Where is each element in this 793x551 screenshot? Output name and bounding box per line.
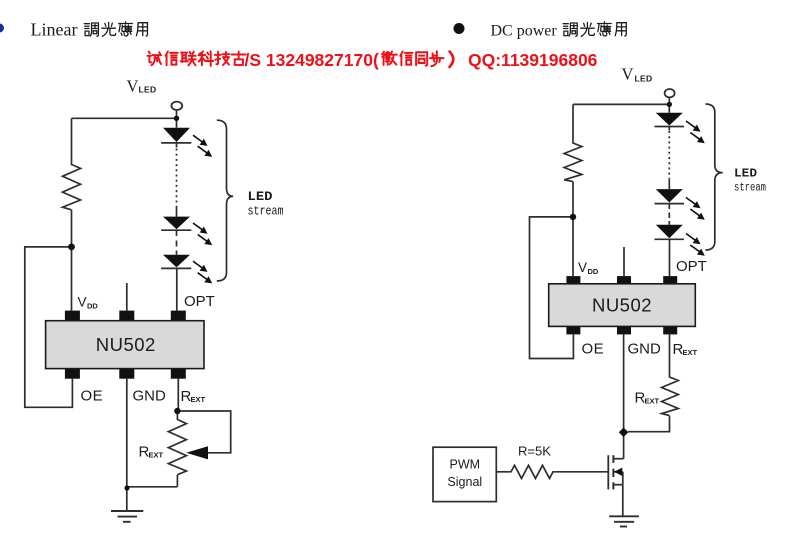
svg-text:OE: OE (81, 388, 104, 405)
svg-text:V: V (78, 295, 87, 310)
svg-text:NU502: NU502 (592, 295, 652, 316)
svg-text:GND: GND (133, 388, 167, 405)
svg-text:V: V (127, 77, 139, 96)
svg-text:V: V (578, 260, 587, 275)
svg-text:R=5K: R=5K (518, 444, 551, 459)
svg-text:EXT: EXT (645, 397, 660, 406)
svg-text:OE: OE (582, 341, 605, 358)
svg-text:NU502: NU502 (96, 334, 156, 355)
svg-text:PWM: PWM (450, 458, 481, 472)
svg-text:LED: LED (734, 167, 757, 181)
svg-text:DD: DD (588, 267, 599, 276)
svg-text:EXT: EXT (683, 348, 698, 357)
svg-text:QQ:1139196806: QQ:1139196806 (468, 50, 598, 70)
svg-text:LED: LED (635, 74, 653, 84)
svg-text:DD: DD (87, 302, 98, 311)
svg-text:/S 13249827170(: /S 13249827170( (245, 50, 379, 70)
svg-text:EXT: EXT (191, 395, 206, 404)
svg-text:stream: stream (734, 182, 766, 195)
svg-text:DC power: DC power (491, 23, 558, 40)
svg-text:EXT: EXT (149, 451, 164, 460)
svg-text:GND: GND (628, 341, 662, 358)
svg-text:stream: stream (248, 205, 284, 219)
svg-text:V: V (622, 65, 634, 84)
svg-text:LED: LED (139, 85, 157, 95)
svg-text:Signal: Signal (447, 475, 482, 489)
svg-text:OPT: OPT (676, 258, 707, 275)
svg-text:LED: LED (248, 190, 274, 204)
svg-text:Linear: Linear (31, 20, 78, 40)
svg-text:OPT: OPT (184, 293, 215, 310)
